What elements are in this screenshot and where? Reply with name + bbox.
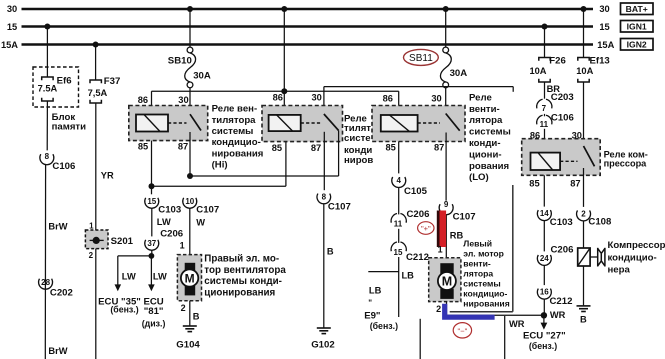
wire branch to ECU 35 arrow <box>118 256 152 285</box>
svg-text:системы: системы <box>212 126 254 137</box>
connector C106 pin 8 <box>40 152 75 172</box>
svg-text:86: 86 <box>383 94 393 104</box>
svg-text:10A: 10A <box>576 66 593 76</box>
svg-text:10A: 10A <box>529 66 546 76</box>
wire SB10 to relay K1 pin30 <box>189 88 191 114</box>
svg-text:30: 30 <box>7 4 17 14</box>
connector C105 pin 4 <box>392 176 428 197</box>
connector C203 pin 7 <box>537 92 574 113</box>
ground G104 <box>183 326 197 332</box>
svg-text:S201: S201 <box>111 236 134 247</box>
wire coil feed line A (bus30 x284 to relays 86) <box>152 9 399 115</box>
svg-text:F37: F37 <box>104 76 121 87</box>
svg-text:(бенз.): (бенз.) <box>529 341 557 351</box>
svg-text:(диз.): (диз.) <box>142 318 166 328</box>
svg-text:30: 30 <box>572 130 582 140</box>
svg-text:C206: C206 <box>407 209 430 220</box>
svg-text:эл. мотор: эл. мотор <box>463 249 504 259</box>
connector C212 pin 16 <box>537 288 572 307</box>
svg-text:LW: LW <box>122 271 136 281</box>
svg-text:30A: 30A <box>193 70 211 81</box>
bus labels right <box>597 4 614 50</box>
svg-text:BAT+: BAT+ <box>626 4 648 14</box>
svg-text:BrW: BrW <box>48 221 67 231</box>
svg-text:7: 7 <box>542 104 547 113</box>
compressor icon <box>598 248 605 267</box>
fuse F37 7.5A <box>90 80 101 103</box>
svg-text:SB11: SB11 <box>409 53 433 64</box>
svg-text:M: M <box>442 275 452 289</box>
wire bus15 to fuse Ef6 <box>46 27 48 78</box>
svg-text:C107: C107 <box>196 205 219 216</box>
svg-text:2: 2 <box>89 251 94 260</box>
label relay K2 (clipped) <box>344 113 373 166</box>
svg-text:85: 85 <box>272 143 282 153</box>
svg-text:1: 1 <box>89 221 94 230</box>
label motor M1 <box>204 254 286 299</box>
wire C203 to C106-11 <box>544 114 546 116</box>
wire K2 pin87 to C107-8 <box>323 132 325 190</box>
svg-text:15: 15 <box>394 248 403 257</box>
svg-text:37: 37 <box>147 239 156 248</box>
wire Ef13 to compressor relay 30 <box>583 82 585 146</box>
svg-text:30: 30 <box>178 95 188 105</box>
svg-text:системы: системы <box>463 279 500 289</box>
svg-text:"81": "81" <box>144 306 164 317</box>
junction dot ECU branch <box>149 253 155 259</box>
wire F26 to C203 <box>544 82 546 99</box>
bus 30 <box>22 8 594 10</box>
wire bus15A to fuse F37 <box>95 45 97 81</box>
fuse SB10 30A <box>185 47 196 88</box>
wire C212-16 to WR junction <box>543 299 545 315</box>
svg-text:C106: C106 <box>52 161 75 172</box>
svg-text:лятора: лятора <box>463 269 493 279</box>
wire C206-24 to C212-16 <box>543 265 545 285</box>
junction dot K1 87 <box>187 173 193 179</box>
wire C107-8 to ground G102 <box>323 204 325 328</box>
label relay K3 <box>469 93 511 184</box>
svg-text:кондицио-: кондицио- <box>608 252 657 263</box>
connector C107 pin 9 <box>439 200 475 223</box>
svg-text:SB10: SB10 <box>168 56 192 67</box>
wire bus15 to fuse F26 <box>544 27 546 58</box>
SB11 red ellipse callout <box>404 49 439 65</box>
wire bus30 to fuse Ef13 <box>583 9 585 58</box>
svg-text:"+": "+" <box>421 224 431 233</box>
svg-text:(бенз.): (бенз.) <box>370 321 398 331</box>
connector C202 pin 28 <box>39 278 73 299</box>
svg-text:WR: WR <box>550 310 566 320</box>
svg-text:87: 87 <box>570 178 580 188</box>
connector C108 pin 2 <box>577 210 612 228</box>
svg-text:Реле вен-: Реле вен- <box>212 104 258 115</box>
svg-text:нера: нера <box>608 265 631 276</box>
svg-text:кондицио-: кондицио- <box>463 289 507 299</box>
bus 15A <box>22 43 594 45</box>
svg-text:8: 8 <box>45 152 50 161</box>
wire M2 pin2 WR to ECU junction <box>447 302 544 359</box>
svg-text:C103: C103 <box>158 205 181 216</box>
svg-text:C107: C107 <box>453 212 476 223</box>
junction dot WR <box>541 312 547 318</box>
svg-text:F26: F26 <box>549 56 566 67</box>
svg-text:C106: C106 <box>551 112 574 123</box>
svg-text:C202: C202 <box>50 288 73 299</box>
node BAT+ box <box>621 3 654 15</box>
svg-text:WR: WR <box>509 319 525 329</box>
wire LB down with E9 branch <box>368 257 398 317</box>
relay K3 (fan LO) <box>372 94 465 153</box>
wire C108-2 to compressor clutch <box>583 221 585 248</box>
wire C107-10 to motor M1 <box>189 208 191 254</box>
svg-text:нирования: нирования <box>463 299 509 309</box>
svg-text:Реле: Реле <box>469 93 492 104</box>
svg-text:9: 9 <box>444 200 449 209</box>
ground compressor <box>577 306 591 312</box>
svg-text:BrW: BrW <box>48 346 67 356</box>
svg-text:C212: C212 <box>406 252 429 263</box>
svg-text:C107: C107 <box>328 201 351 212</box>
wire contact feed line B (SB11 to K2 pin30) <box>324 87 513 114</box>
svg-text:14: 14 <box>540 209 549 218</box>
wire bus30 to fuse SB10 <box>189 9 191 47</box>
fuse Ef13 10A <box>578 58 589 83</box>
svg-text:C108: C108 <box>588 217 612 228</box>
wire K2 87-contact to K1 87 <box>190 131 339 177</box>
svg-text:(бенз.): (бенз.) <box>110 305 138 315</box>
ground G102 <box>317 328 331 334</box>
svg-text:(Hi): (Hi) <box>212 160 228 171</box>
svg-text:LB: LB <box>369 285 382 295</box>
svg-text:16: 16 <box>540 288 549 297</box>
wire clutch to ground <box>583 266 585 305</box>
svg-text:C206: C206 <box>160 229 183 240</box>
red circled plus <box>418 222 434 235</box>
svg-text:85: 85 <box>138 141 148 151</box>
wire K3 85 to C105 <box>398 142 400 174</box>
junction dot line A <box>281 88 287 94</box>
fuse Ef6 7.5A <box>42 77 53 101</box>
svg-text:циони-: циони- <box>469 149 502 160</box>
svg-text:RB: RB <box>450 230 464 240</box>
svg-text:W: W <box>196 217 205 227</box>
svg-text:ционирования: ционирования <box>204 287 275 298</box>
svg-text:системы конди-: системы конди- <box>204 276 282 287</box>
wire C106 to bottom (BrW) <box>44 165 46 359</box>
label motor M2 <box>463 239 509 309</box>
svg-text:C105: C105 <box>404 186 428 197</box>
svg-text:M: M <box>185 272 195 286</box>
svg-text:8: 8 <box>322 193 327 202</box>
label compressor relay <box>604 149 648 168</box>
wire M1 to ground <box>189 301 191 326</box>
connector C103 pin 15 <box>145 197 181 216</box>
wire C106-11 to compressor relay 86 <box>544 129 546 153</box>
svg-text:2: 2 <box>581 210 586 219</box>
wire K2 85 to K1 85 <box>152 141 286 195</box>
junction dot K1 85 <box>149 183 155 189</box>
svg-text:YR: YR <box>101 170 114 180</box>
wire C107-9 to motor M2 <box>445 215 447 258</box>
connector C206 pin 24 <box>537 244 573 265</box>
svg-text:10: 10 <box>185 197 194 206</box>
svg-text:IGN1: IGN1 <box>627 22 647 32</box>
svg-text:рования: рования <box>469 161 509 172</box>
svg-text:Компрессор: Компрессор <box>608 240 665 251</box>
svg-text:7,5A: 7,5A <box>88 88 108 98</box>
relay K2 (fan) <box>262 93 343 153</box>
svg-text:2: 2 <box>181 303 186 313</box>
svg-text:1: 1 <box>180 240 185 250</box>
svg-text:Ef6: Ef6 <box>57 75 72 86</box>
svg-text:87: 87 <box>434 142 444 152</box>
svg-text:памяти: памяти <box>52 122 87 133</box>
svg-text:B: B <box>327 246 334 256</box>
wire to ECU 81 arrow <box>150 256 152 285</box>
svg-text:C203: C203 <box>551 92 574 103</box>
svg-text:1: 1 <box>438 244 443 254</box>
svg-text:85: 85 <box>529 178 539 188</box>
svg-text:Ef13: Ef13 <box>590 56 610 67</box>
svg-text:ниров: ниров <box>344 155 373 166</box>
svg-text:86: 86 <box>273 93 283 103</box>
connector C106 pin 11 <box>537 112 574 129</box>
wire C103-14 to C206-24 <box>543 221 545 252</box>
motor M2 label frame <box>450 185 513 312</box>
svg-text:систе: систе <box>344 133 371 144</box>
svg-text:B: B <box>580 315 587 325</box>
svg-text:IGN2: IGN2 <box>627 40 647 50</box>
svg-text:11: 11 <box>540 120 549 129</box>
connector C107 pin 8 <box>317 193 351 213</box>
svg-text:LW: LW <box>157 217 171 227</box>
bus 15 <box>22 25 594 27</box>
svg-text:28: 28 <box>41 278 50 287</box>
connector C206 pin 37 <box>145 229 183 251</box>
svg-text:15A: 15A <box>1 40 18 50</box>
svg-text:венти-: венти- <box>463 259 491 269</box>
wire C206-11 to C212-15 <box>398 229 400 243</box>
svg-text:Левый: Левый <box>463 239 492 249</box>
svg-text:86: 86 <box>138 95 148 105</box>
svg-text:C206: C206 <box>551 244 574 255</box>
svg-text:(LO): (LO) <box>469 172 489 183</box>
connector C206 pin 11 <box>391 209 429 228</box>
red highlight bar RB wire <box>437 211 440 248</box>
motor M2 (left fan motor) <box>429 258 461 302</box>
node IGN1 box <box>621 21 654 33</box>
svg-text:": " <box>368 299 372 308</box>
svg-text:86: 86 <box>530 130 540 140</box>
splice S201 <box>85 221 133 259</box>
svg-text:LW: LW <box>153 271 167 281</box>
wire C206-37 to ECU branch <box>151 250 153 256</box>
svg-text:B: B <box>193 311 200 321</box>
relay K1 (fan Hi) <box>129 95 208 176</box>
svg-text:нирования: нирования <box>212 148 264 159</box>
svg-text:30: 30 <box>599 4 609 14</box>
node IGN2 box <box>621 39 654 51</box>
blue highlight bar wire <box>445 304 495 317</box>
svg-text:LB: LB <box>402 271 415 281</box>
svg-text:"−": "−" <box>458 326 468 335</box>
svg-text:C212: C212 <box>550 296 573 307</box>
wire Ef6 to C106 <box>46 101 48 150</box>
compressor clutch coil <box>578 248 597 266</box>
fuse SB11 30A <box>440 47 451 88</box>
svg-text:7.5A: 7.5A <box>38 83 58 93</box>
svg-text:тилятора: тилятора <box>212 115 257 126</box>
connector C103 pin 14 <box>537 209 572 228</box>
svg-text:30: 30 <box>312 93 322 103</box>
fuse F26 10A <box>539 58 550 83</box>
connector C212 pin 15 <box>391 242 429 263</box>
svg-text:конди-: конди- <box>469 138 501 149</box>
svg-text:87: 87 <box>311 143 321 153</box>
connector C107 pin 10 <box>183 197 219 216</box>
junction dots on buses <box>44 6 586 48</box>
wire K3 87 to C107-9 <box>445 133 447 201</box>
relay K4 (compressor relay) <box>522 130 601 188</box>
memory block dashed box <box>33 67 79 107</box>
svg-text:15: 15 <box>599 22 609 32</box>
svg-text:прессора: прессора <box>604 159 648 169</box>
wire bus30 to fuse SB11 <box>445 9 447 47</box>
svg-text:C103: C103 <box>550 217 573 228</box>
svg-text:тор вентилятора: тор вентилятора <box>204 265 286 276</box>
svg-text:11: 11 <box>394 219 403 228</box>
red circled minus <box>453 323 471 338</box>
bus labels left <box>1 4 18 50</box>
wire K4 85 to C103-14 <box>543 175 545 206</box>
wire SB11 to relay K3 pin30 <box>445 88 447 114</box>
svg-text:30: 30 <box>431 94 441 104</box>
wire C105 to C206-11 <box>398 187 400 214</box>
wire C103-15 to C206-37 <box>151 208 153 236</box>
svg-text:24: 24 <box>540 254 549 263</box>
svg-text:лятора: лятора <box>469 115 503 126</box>
label relay K1 <box>212 104 264 171</box>
svg-text:G102: G102 <box>311 340 334 351</box>
svg-text:87: 87 <box>178 141 188 151</box>
wire K4 87 to C108-2 <box>583 168 585 207</box>
svg-text:кондицио-: кондицио- <box>212 137 261 148</box>
arrow to ECU 27 <box>543 315 545 323</box>
wire F37 down through S201 to bottom (YR) <box>95 103 97 359</box>
svg-text:2: 2 <box>436 304 441 314</box>
svg-text:системы: системы <box>469 127 511 138</box>
svg-text:G104: G104 <box>176 339 200 350</box>
label compressor <box>608 240 665 275</box>
svg-text:венти-: венти- <box>469 104 500 115</box>
svg-text:85: 85 <box>386 142 396 152</box>
svg-text:30A: 30A <box>450 68 468 79</box>
svg-text:Правый эл. мо-: Правый эл. мо- <box>204 254 279 265</box>
svg-text:15: 15 <box>7 22 17 32</box>
motor M1 (right fan motor) <box>177 255 201 301</box>
svg-text:15A: 15A <box>597 40 614 50</box>
svg-text:15: 15 <box>147 197 156 206</box>
svg-text:4: 4 <box>396 176 401 185</box>
wire stub to next sheet <box>419 319 421 359</box>
